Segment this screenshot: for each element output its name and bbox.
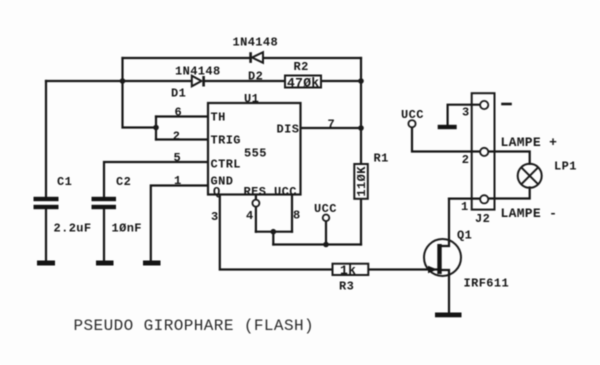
svg-text:Q1: Q1 bbox=[457, 228, 472, 242]
svg-text:TRIG: TRIG bbox=[211, 133, 241, 147]
svg-text:5: 5 bbox=[174, 151, 182, 165]
svg-text:1: 1 bbox=[174, 174, 182, 188]
svg-text:2.2uF: 2.2uF bbox=[54, 221, 92, 235]
svg-text:LAMPE +: LAMPE + bbox=[501, 135, 558, 150]
svg-text:1k: 1k bbox=[340, 263, 356, 278]
svg-text:UCC: UCC bbox=[401, 108, 424, 122]
svg-text:C1: C1 bbox=[57, 175, 72, 189]
svg-text:4: 4 bbox=[246, 209, 254, 223]
svg-text:1N4148: 1N4148 bbox=[175, 65, 221, 79]
svg-text:PSEUDO GIROPHARE (FLASH): PSEUDO GIROPHARE (FLASH) bbox=[74, 317, 315, 335]
svg-text:D1: D1 bbox=[171, 87, 186, 101]
svg-text:C2: C2 bbox=[116, 175, 131, 189]
svg-text:3: 3 bbox=[462, 105, 470, 119]
svg-text:LAMPE -: LAMPE - bbox=[501, 206, 558, 221]
svg-text:U1: U1 bbox=[244, 92, 259, 106]
svg-text:2: 2 bbox=[462, 153, 470, 167]
svg-text:1: 1 bbox=[461, 200, 469, 214]
svg-text:RES: RES bbox=[244, 185, 267, 199]
svg-text:8: 8 bbox=[293, 208, 301, 222]
svg-text:DIS: DIS bbox=[277, 123, 300, 137]
svg-text:Q: Q bbox=[213, 185, 221, 199]
svg-text:CTRL: CTRL bbox=[211, 158, 241, 172]
svg-text:LP1: LP1 bbox=[554, 159, 577, 173]
svg-text:R3: R3 bbox=[339, 279, 354, 293]
svg-text:IRF611: IRF611 bbox=[464, 276, 510, 290]
svg-text:D2: D2 bbox=[248, 70, 263, 84]
svg-text:TH: TH bbox=[211, 110, 226, 124]
svg-text:UCC: UCC bbox=[274, 185, 297, 199]
svg-text:6: 6 bbox=[175, 105, 183, 119]
svg-text:UCC: UCC bbox=[314, 202, 337, 216]
svg-text:R1: R1 bbox=[374, 151, 389, 165]
svg-text:2: 2 bbox=[173, 129, 181, 143]
svg-text:1ØnF: 1ØnF bbox=[112, 221, 142, 235]
svg-text:11ØK: 11ØK bbox=[355, 166, 369, 197]
svg-text:47Øk: 47Øk bbox=[287, 75, 319, 90]
svg-text:7: 7 bbox=[328, 117, 336, 131]
svg-text:J2: J2 bbox=[475, 212, 490, 226]
svg-text:R2: R2 bbox=[294, 60, 309, 74]
svg-text:555: 555 bbox=[244, 147, 267, 161]
svg-text:3: 3 bbox=[211, 210, 219, 224]
svg-text:1N4148: 1N4148 bbox=[233, 36, 279, 50]
